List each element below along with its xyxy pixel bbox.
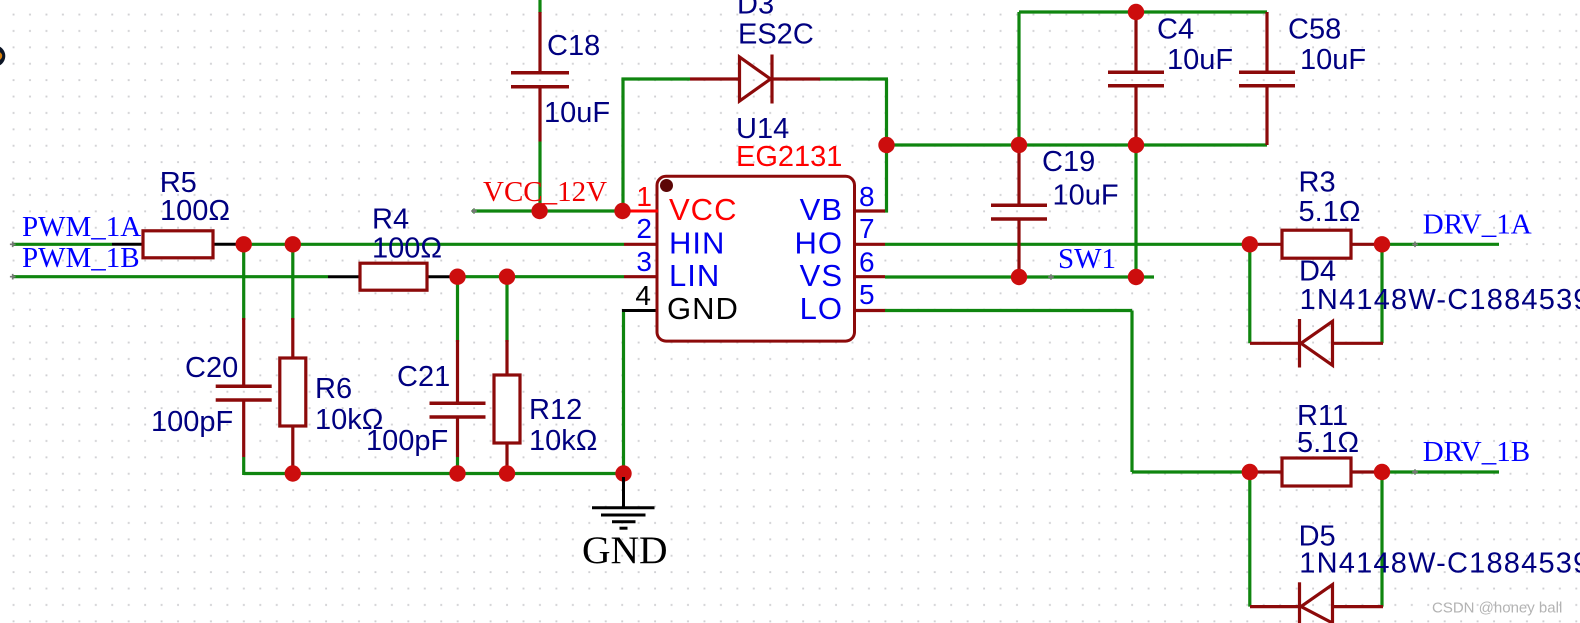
- svg-text:10kΩ: 10kΩ: [529, 425, 597, 457]
- capacitor C21: [430, 340, 486, 457]
- svg-text:10uF: 10uF: [1053, 180, 1119, 212]
- node VB rail left: [878, 137, 894, 153]
- node rail-GND: [615, 465, 631, 481]
- pin 4 stub black: [622, 309, 657, 312]
- svg-text:ES2C: ES2C: [738, 19, 814, 51]
- resistor R6 body: [280, 358, 306, 426]
- wire D3 anode horizontal: [622, 77, 691, 80]
- svg-text:U14: U14: [736, 113, 789, 145]
- wire top rail horizontal: [1019, 10, 1267, 13]
- svg-text:VCC_12V: VCC_12V: [483, 176, 607, 208]
- node VCC_12V endpoint: [471, 208, 477, 214]
- node C4 top: [1128, 4, 1144, 20]
- node C19 top: [1011, 137, 1027, 153]
- svg-text:C4: C4: [1157, 14, 1194, 46]
- svg-text:GND: GND: [667, 291, 739, 326]
- capacitor C4: [1108, 12, 1164, 145]
- wire SW1 vertical: [1134, 145, 1137, 277]
- svg-text:VCC: VCC: [669, 192, 737, 227]
- diode D3: [690, 55, 820, 104]
- wire C21 branch vertical: [456, 277, 459, 342]
- resistor R11 body: [1282, 458, 1351, 486]
- node DRV_1A anchor: [1412, 242, 1418, 248]
- IC U14 body: [657, 176, 855, 341]
- wire VCC_12V horizontal: [472, 209, 625, 212]
- node PWM_1B endpoint: [10, 274, 16, 280]
- node PWM_1A endpoint: [10, 242, 16, 248]
- svg-text:LIN: LIN: [669, 258, 720, 293]
- node SW1-VS: [1128, 269, 1144, 285]
- svg-text:PWM_1A: PWM_1A: [22, 211, 141, 243]
- wire SW1 VS horizontal: [885, 275, 1154, 278]
- svg-text:VB: VB: [800, 192, 843, 227]
- node rail-R6: [285, 465, 301, 481]
- wire D3 anode branch vertical: [621, 78, 624, 212]
- svg-text:1N4148W-C1884539: 1N4148W-C1884539: [1299, 547, 1580, 579]
- svg-text:5.1Ω: 5.1Ω: [1299, 196, 1361, 228]
- svg-text:SW1: SW1: [1058, 243, 1116, 275]
- pin 1 marker dot: [660, 179, 673, 192]
- node C19 bottom VS: [1011, 269, 1027, 285]
- wire C21 bottom green: [456, 457, 459, 474]
- svg-text:10uF: 10uF: [1300, 44, 1366, 76]
- svg-text:GND: GND: [582, 528, 668, 572]
- svg-text:100Ω: 100Ω: [372, 232, 442, 264]
- svg-text:HO: HO: [795, 226, 844, 261]
- wire PWM_1B left segment: [12, 275, 328, 278]
- resistor R6 leads: [291, 318, 294, 358]
- svg-text:LO: LO: [800, 291, 843, 326]
- svg-text:HIN: HIN: [669, 226, 725, 261]
- svg-text:PWM_1B: PWM_1B: [22, 242, 140, 274]
- svg-text:3: 3: [636, 246, 652, 277]
- svg-text:C58: C58: [1288, 14, 1341, 46]
- diode D5: [1250, 582, 1383, 623]
- svg-text:R12: R12: [529, 394, 582, 426]
- svg-text:7: 7: [859, 213, 875, 244]
- svg-text:C21: C21: [397, 361, 450, 393]
- svg-text:DRV_1B: DRV_1B: [1423, 436, 1530, 468]
- diode D4: [1250, 319, 1383, 368]
- resistor R4 right lead: [426, 275, 457, 278]
- wire HIN net from R5 to pin2: [244, 243, 624, 246]
- node DRV_1B anchor: [1412, 469, 1418, 475]
- wire R12 branch vertical: [505, 277, 508, 342]
- svg-text:VS: VS: [800, 258, 843, 293]
- node SW1 anchor: [1048, 274, 1054, 280]
- resistor R4 left lead: [328, 275, 361, 278]
- wire top rail left vertical: [1017, 12, 1020, 145]
- wire D3 cathode horizontal: [820, 77, 888, 80]
- ground: [592, 477, 655, 528]
- svg-text:8: 8: [859, 181, 875, 212]
- capacitor C58: [1239, 12, 1295, 145]
- svg-text:100pF: 100pF: [366, 425, 448, 457]
- wire VB vertical: [885, 79, 888, 213]
- svg-text:2: 2: [636, 213, 652, 244]
- svg-text:100Ω: 100Ω: [160, 195, 230, 227]
- capacitor C19: [991, 145, 1047, 277]
- wire pin8 connect: [884, 209, 888, 212]
- op-amp U14 pin stubs: [624, 211, 885, 311]
- pin 1 stub red: [625, 210, 658, 213]
- capacitor C20: [216, 318, 272, 457]
- node LIN-R12: [499, 269, 515, 285]
- wire LO net horizontal: [885, 309, 1132, 312]
- svg-text:1: 1: [636, 181, 652, 212]
- node LIN-C21: [449, 269, 465, 285]
- wire R3 right vertical to D4: [1380, 244, 1383, 343]
- resistor R4 body: [360, 263, 427, 290]
- node R11-DRV1B: [1374, 464, 1390, 480]
- wire HO net horizontal: [885, 243, 1250, 246]
- svg-text:6: 6: [859, 247, 875, 278]
- node R3-DRV1A: [1374, 236, 1390, 252]
- svg-text:R3: R3: [1299, 167, 1336, 199]
- wire GND bottom rail: [244, 472, 624, 475]
- resistor R12 leads: [505, 340, 508, 375]
- wire R6 bottom green: [291, 468, 294, 474]
- svg-text:C18: C18: [547, 30, 600, 62]
- node VCC-C18: [531, 203, 547, 219]
- wire LO to R11 horizontal: [1132, 470, 1250, 473]
- avatar partial circle: [0, 45, 5, 67]
- wire LO vertical down: [1130, 311, 1133, 473]
- wire DRV_1B stub: [1382, 470, 1499, 473]
- wire R11 right vertical to D5: [1380, 472, 1383, 607]
- wire R12 bottom green: [505, 468, 508, 474]
- resistor R3 body: [1282, 230, 1351, 258]
- svg-text:D4: D4: [1299, 255, 1336, 287]
- svg-text:R6: R6: [315, 373, 352, 405]
- svg-text:R4: R4: [372, 204, 409, 236]
- wire LIN net from R4 to pin3: [458, 275, 625, 278]
- resistor R11 leads: [1255, 470, 1283, 473]
- resistor R5 left lead: [112, 243, 144, 246]
- svg-text:100pF: 100pF: [151, 406, 233, 438]
- wire GND vertical from pin4: [622, 311, 625, 474]
- node HIN-C20: [236, 236, 252, 252]
- wire C20 bottom green: [242, 457, 245, 475]
- wire R6 branch vertical: [291, 244, 294, 320]
- svg-text:DRV_1A: DRV_1A: [1423, 208, 1532, 240]
- capacitor C18: [511, 12, 569, 142]
- wire R11 left vertical to D5: [1248, 472, 1251, 607]
- wire R3 left vertical to D4: [1248, 244, 1251, 343]
- svg-text:10uF: 10uF: [1167, 44, 1233, 76]
- node rail-R12: [499, 465, 515, 481]
- wire PWM_1A left segment: [12, 243, 112, 246]
- svg-text:5.1Ω: 5.1Ω: [1297, 427, 1359, 459]
- svg-text:C20: C20: [185, 352, 238, 384]
- node HO-R3: [1242, 236, 1258, 252]
- svg-text:EG2131: EG2131: [736, 141, 842, 173]
- node LO-R11: [1242, 464, 1258, 480]
- wire DRV_1A stub: [1382, 243, 1499, 246]
- svg-text:C19: C19: [1042, 146, 1095, 178]
- resistor R3 leads: [1255, 243, 1283, 246]
- svg-text:4: 4: [635, 280, 651, 311]
- wire VB rail horizontal: [887, 143, 1268, 146]
- wire C20 branch vertical: [242, 244, 245, 320]
- svg-text:D3: D3: [737, 0, 774, 21]
- resistor R5 right lead: [212, 243, 243, 246]
- svg-text:1N4148W-C1884539: 1N4148W-C1884539: [1300, 284, 1580, 316]
- node HIN-R6: [285, 236, 301, 252]
- svg-text:5: 5: [859, 279, 875, 310]
- node VCC-pin1: [614, 203, 630, 219]
- resistor R5 body: [143, 231, 213, 258]
- wire C18 bottom leg green: [538, 142, 541, 212]
- resistor R12 body: [494, 375, 520, 443]
- node C4 bottom: [1128, 137, 1144, 153]
- svg-text:CSDN @honey ball: CSDN @honey ball: [1432, 600, 1562, 617]
- svg-text:10uF: 10uF: [544, 97, 610, 129]
- wire C18 top stub: [538, 0, 541, 13]
- node rail-C21: [449, 465, 465, 481]
